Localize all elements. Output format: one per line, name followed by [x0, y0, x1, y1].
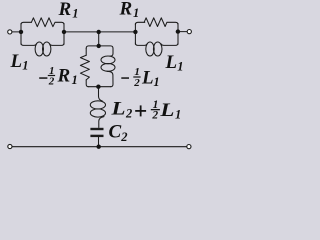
node dot shunt top	[97, 44, 101, 48]
wire capacitor to rail	[98, 137, 100, 147]
wire bottom branch network2 right lead	[161, 43, 178, 46]
label -1/2 L1 : minus sign	[121, 77, 129, 79]
svg-text:L: L	[141, 68, 154, 89]
label L2 + 1/2 L1 : plus sign	[135, 110, 146, 112]
terminal top-left	[8, 30, 12, 34]
capacitor C2 top plate	[90, 128, 103, 130]
wire left bus network2	[134, 24, 136, 45]
wire bottom branch network1 left lead	[21, 43, 37, 46]
svg-text:2: 2	[48, 75, 55, 87]
node dot A	[62, 30, 66, 34]
node dot C	[176, 29, 180, 33]
terminal bottom-right	[187, 145, 191, 149]
node dot B	[133, 30, 137, 34]
svg-text:R: R	[119, 0, 133, 20]
wire shunt right lead top	[110, 48, 113, 56]
wire terminal to node	[12, 31, 21, 33]
svg-text:1: 1	[72, 73, 78, 87]
inductor L2 loop1	[90, 101, 105, 109]
svg-text:1: 1	[72, 7, 78, 21]
svg-text:R: R	[58, 0, 72, 20]
resistor R1 left	[31, 18, 64, 27]
svg-text:2: 2	[151, 110, 158, 122]
svg-text:2: 2	[125, 106, 132, 120]
inductor -1/2 L1 loop2	[101, 64, 115, 72]
terminal bottom-left	[8, 144, 12, 148]
wire node C to terminal	[178, 31, 187, 33]
svg-text:C: C	[109, 122, 122, 143]
wire node D down to L2	[99, 87, 103, 101]
resistor -1/2 R1	[80, 55, 89, 80]
resistor R1 right	[144, 18, 178, 27]
wire left bus network1	[20, 24, 22, 45]
wire shunt left lead top	[85, 48, 87, 55]
node dot rail	[97, 145, 101, 149]
svg-text:R: R	[57, 66, 71, 87]
bottom rail wire	[12, 146, 187, 148]
wire L2 to capacitor	[99, 117, 104, 128]
node dot shunt bottom	[96, 85, 100, 89]
wire right bus network2	[177, 24, 179, 45]
wire top branch network1 left lead	[21, 22, 32, 25]
svg-text:1: 1	[153, 75, 159, 89]
svg-text:1: 1	[22, 59, 28, 73]
svg-text:L: L	[110, 99, 125, 120]
wire center node down to shunt	[98, 32, 100, 46]
svg-text:L: L	[159, 100, 174, 121]
svg-text:1: 1	[177, 60, 183, 74]
wire shunt right lead bottom	[107, 71, 113, 86]
inductor -1/2 L1 loop1	[101, 56, 115, 64]
node dot center	[97, 30, 101, 34]
svg-text:2: 2	[120, 130, 127, 144]
wire shunt left lead bottom	[86, 80, 89, 87]
wire bottom branch network1 right lead	[50, 43, 65, 46]
wire shunt bottom branch	[89, 86, 111, 88]
label -1/2 R1 : minus sign	[39, 77, 47, 79]
inductor L1 left loop2	[43, 42, 51, 56]
wire top branch network2 left lead	[135, 22, 144, 25]
wire right bus network1	[63, 24, 65, 45]
wire shunt top branch	[86, 46, 113, 49]
inductor L1 right loop1	[146, 42, 154, 56]
wire node A to node B	[64, 31, 135, 33]
svg-text:1: 1	[133, 6, 139, 20]
svg-text:2: 2	[133, 77, 140, 89]
svg-text:1: 1	[175, 108, 181, 122]
inductor L1 right loop2	[153, 42, 162, 56]
terminal top-right	[187, 30, 191, 34]
node dot left	[19, 30, 23, 34]
svg-text:L: L	[165, 52, 178, 73]
capacitor C2 bottom plate	[90, 135, 103, 137]
svg-text:L: L	[10, 51, 23, 72]
wire bottom branch network2 left lead	[135, 43, 147, 46]
inductor L2 loop2	[90, 109, 105, 117]
inductor L1 left loop1	[35, 42, 43, 56]
